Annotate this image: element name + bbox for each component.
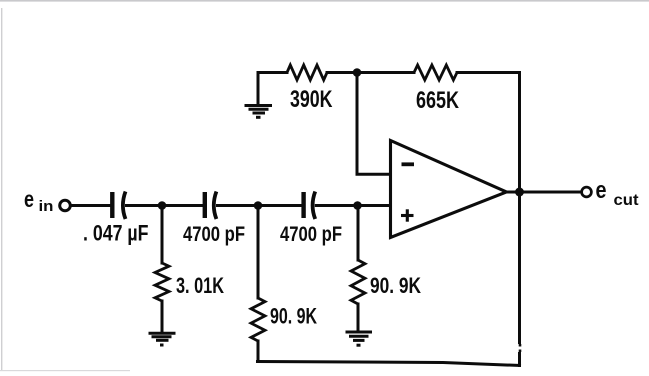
svg-text:cut: cut [614, 192, 639, 209]
wire: C3 to node C [316, 204, 357, 207]
label e_cut [596, 177, 639, 209]
capacitor C3 4700 pF [304, 192, 316, 220]
svg-text:e: e [596, 177, 607, 204]
wire: node A to C2 [162, 204, 203, 207]
wire: op-amp output to node E [505, 191, 520, 194]
wire: C2 to node B [218, 204, 259, 207]
node E [515, 188, 524, 197]
svg-text:. 047 µF: . 047 µF [83, 221, 149, 246]
svg-text:90. 9K: 90. 9K [370, 273, 421, 298]
node B [254, 201, 263, 210]
wire: node C to op-amp + input [358, 204, 391, 207]
svg-text:3. 01K: 3. 01K [176, 273, 224, 298]
resistor R2 90.9K [251, 298, 265, 341]
terminal e_cut [582, 187, 592, 197]
wire: R3 to ground G3 [357, 304, 360, 331]
op-amp U1 [391, 141, 507, 238]
svg-text:390K: 390K [290, 86, 333, 113]
ground G2 [149, 333, 176, 345]
ground G3 [346, 332, 373, 345]
node D [353, 68, 362, 77]
capacitor C2 4700 pF [205, 192, 217, 220]
wire: node A down to R1 [161, 206, 164, 264]
wire: e_in terminal to C1 [71, 204, 110, 207]
wire: node C down to R3 [357, 206, 360, 261]
wire: node B to C3 [258, 204, 302, 207]
wire: R2 to bottom rail corner [257, 341, 260, 362]
label e_in [24, 186, 54, 215]
svg-text:e: e [24, 186, 34, 212]
terminal e_in [60, 200, 71, 211]
wire: R4 to R5 through node D [327, 71, 414, 74]
svg-text:in: in [39, 198, 54, 215]
wire: node B down to R2 [257, 206, 260, 299]
node A [158, 201, 167, 210]
wire: output column bottom (node E to bottom rail) [518, 192, 522, 366]
wire: R5 to output column [457, 71, 520, 74]
svg-text:4700 pF: 4700 pF [280, 222, 342, 246]
resistor R3 90.9K [351, 260, 365, 304]
wire: output column top (node E to top rail) [518, 73, 521, 193]
svg-text:90. 9K: 90. 9K [270, 304, 317, 329]
wire: R1 to ground G2 [161, 301, 164, 332]
resistor R5 665K [414, 65, 457, 80]
wire: bottom feedback rail [258, 362, 520, 366]
resistor R4 390K [287, 65, 327, 80]
svg-text:665K: 665K [416, 87, 460, 114]
capacitor C1 .047 uF [112, 192, 125, 220]
wire: node E to e_cut terminal [520, 191, 582, 194]
wire: C1 to node A [127, 204, 163, 207]
wire: node D down to op-amp inverting input [357, 73, 391, 175]
node C [353, 201, 362, 210]
resistor R1 3.01K [155, 263, 169, 301]
wire: top rail left segment to G1 drop [258, 73, 287, 105]
svg-text:4700 pF: 4700 pF [183, 222, 245, 246]
ground G1 [245, 106, 273, 118]
